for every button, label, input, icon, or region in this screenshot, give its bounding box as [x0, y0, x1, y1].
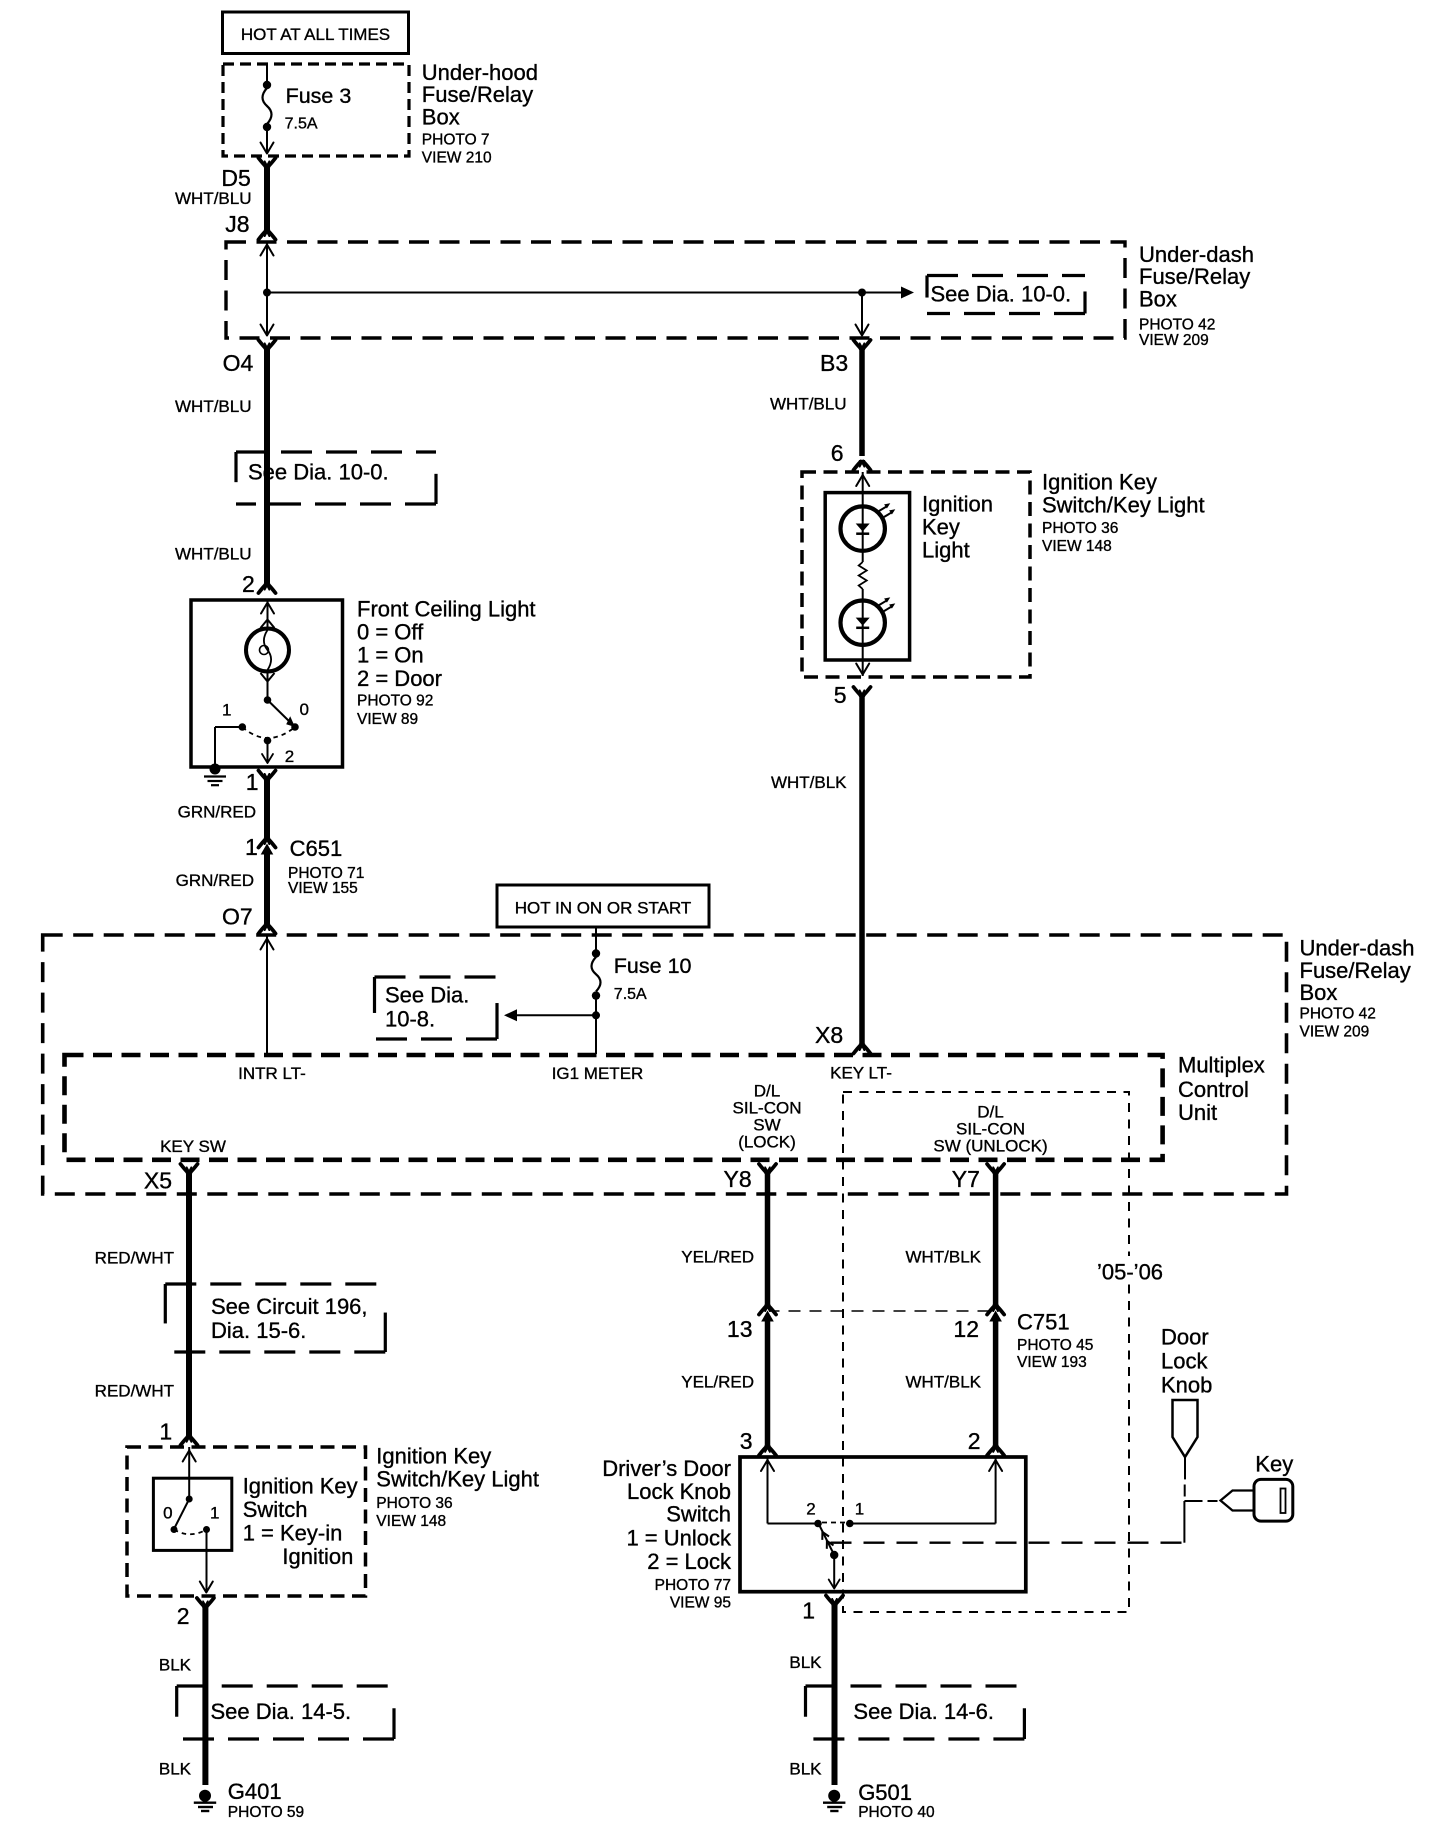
wire BLK pin2 to G401	[159, 1605, 206, 1786]
svg-text:Door: Door	[1161, 1324, 1209, 1349]
svg-text:See Circuit 196,: See Circuit 196,	[211, 1294, 368, 1319]
svg-text:13: 13	[727, 1316, 753, 1342]
svg-text:Lock: Lock	[1161, 1348, 1208, 1373]
junction node at B3 branch	[858, 289, 866, 297]
svg-text:Control: Control	[1178, 1077, 1249, 1102]
fuse F3 (Fuse 3, 7.5A)	[261, 64, 352, 154]
ground G501	[823, 1780, 935, 1821]
svg-text:Fuse/Relay: Fuse/Relay	[1300, 958, 1411, 983]
svg-text:VIEW 148: VIEW 148	[376, 1513, 446, 1530]
svg-text:YEL/RED: YEL/RED	[681, 1373, 754, 1392]
wire RED/WHT X5 down	[95, 1171, 189, 1439]
connector C751 pin 12	[953, 1305, 1004, 1343]
svg-text:D5: D5	[221, 165, 250, 191]
svg-text:1: 1	[159, 1419, 172, 1445]
wire WHT/BLK Y7 to C751-12	[905, 1171, 995, 1309]
'05-'06 model region (thin dashed)	[843, 1092, 1168, 1612]
svg-text:1: 1	[246, 769, 259, 795]
svg-text:WHT/BLK: WHT/BLK	[771, 773, 847, 792]
svg-text:G401: G401	[228, 1779, 282, 1804]
wire WHT/BLK pin5 to X8	[771, 694, 862, 1047]
svg-text:Key: Key	[922, 514, 960, 539]
wire branch down to B3	[856, 293, 869, 337]
ignition key switch (inner box)	[153, 1473, 357, 1569]
connector X8	[815, 1022, 871, 1054]
reference box See Dia. 10-0. (in under-dash box)	[927, 276, 1085, 314]
power label HOT IN ON OR START	[497, 885, 709, 927]
svg-text:WHT/BLU: WHT/BLU	[175, 397, 252, 416]
svg-text:B3: B3	[820, 350, 848, 376]
svg-text:0: 0	[300, 700, 309, 719]
wire WHT/BLU B3 to key light	[770, 347, 862, 457]
svg-text:WHT/BLK: WHT/BLK	[905, 1248, 981, 1267]
svg-text:Ignition: Ignition	[282, 1544, 353, 1569]
svg-text:VIEW 209: VIEW 209	[1139, 332, 1209, 349]
svg-text:Multiplex: Multiplex	[1178, 1052, 1265, 1077]
svg-text:J8: J8	[225, 211, 249, 237]
svg-text:See Dia. 10-0.: See Dia. 10-0.	[931, 282, 1072, 307]
svg-text:G501: G501	[858, 1780, 912, 1805]
svg-text:2 = Door: 2 = Door	[357, 666, 442, 691]
multiplex control unit box (dashed)	[65, 1052, 1265, 1159]
switch arm of door lock knob switch	[820, 1526, 840, 1589]
svg-text:1: 1	[245, 834, 258, 860]
reference box See Dia. 10-8.	[375, 977, 498, 1039]
svg-text:7.5A: 7.5A	[614, 986, 647, 1003]
resistor (between LEDs)	[859, 562, 867, 589]
svg-text:PHOTO 45: PHOTO 45	[1017, 1337, 1093, 1354]
reference box See Dia. 14-5.	[177, 1686, 394, 1739]
svg-text:HOT AT ALL TIMES: HOT AT ALL TIMES	[241, 25, 390, 44]
svg-text:VIEW 193: VIEW 193	[1017, 1354, 1087, 1371]
LED 1	[841, 472, 896, 562]
svg-text:VIEW 89: VIEW 89	[357, 711, 418, 728]
svg-text:YEL/RED: YEL/RED	[681, 1248, 754, 1267]
switch contacts of door lock knob switch	[761, 1457, 1002, 1527]
svg-text:C751: C751	[1017, 1310, 1070, 1335]
svg-text:WHT/BLU: WHT/BLU	[175, 545, 252, 564]
svg-text:Key: Key	[1255, 1452, 1293, 1477]
svg-text:Fuse 3: Fuse 3	[286, 84, 352, 108]
wire branch to See Dia. 10-0.	[267, 287, 914, 299]
ignition key switch/key light box (dashed)	[802, 469, 1205, 677]
svg-text:Ignition Key: Ignition Key	[1042, 469, 1157, 494]
svg-text:BLK: BLK	[159, 1656, 192, 1675]
ground (internal, ceiling light)	[204, 764, 226, 786]
connector C651	[245, 834, 364, 897]
connector pin 2 of front ceiling light	[242, 571, 276, 597]
wire WHT/BLU D5 to J8	[175, 165, 267, 234]
svg-text:3: 3	[740, 1428, 753, 1454]
svg-text:’05-’06: ’05-’06	[1097, 1259, 1163, 1284]
switch of front ceiling light (0/1/2)	[222, 672, 309, 767]
wire WHT/BLU O4 down	[175, 347, 267, 587]
svg-text:1 = Key-in: 1 = Key-in	[243, 1520, 343, 1545]
connector Y7	[952, 1164, 1004, 1192]
LED 2	[841, 589, 896, 676]
svg-text:WHT/BLK: WHT/BLK	[905, 1373, 981, 1392]
svg-text:RED/WHT: RED/WHT	[95, 1382, 174, 1401]
svg-text:INTR LT-: INTR LT-	[238, 1064, 306, 1083]
svg-text:See Dia. 10-0.: See Dia. 10-0.	[248, 460, 389, 485]
svg-text:Switch/Key Light: Switch/Key Light	[1042, 493, 1205, 518]
wire BLK pin1 to G501	[789, 1602, 834, 1785]
svg-text:BLK: BLK	[789, 1653, 822, 1672]
svg-text:Light: Light	[922, 537, 970, 562]
ignition key light (inner box, LEDs)	[825, 491, 993, 660]
svg-text:5: 5	[834, 682, 847, 708]
connector X5	[144, 1164, 198, 1194]
reference box See Dia. 14-6.	[806, 1686, 1025, 1739]
svg-text:12: 12	[953, 1316, 979, 1342]
svg-text:Switch: Switch	[666, 1502, 731, 1527]
svg-text:2: 2	[968, 1428, 981, 1454]
svg-text:Ignition Key: Ignition Key	[376, 1443, 491, 1468]
svg-text:Switch/Key Light: Switch/Key Light	[376, 1467, 539, 1492]
under-hood fuse/relay box (dashed)	[223, 60, 538, 167]
svg-text:Under-dash: Under-dash	[1300, 936, 1415, 961]
svg-text:VIEW 148: VIEW 148	[1042, 538, 1112, 555]
svg-text:(LOCK): (LOCK)	[738, 1133, 796, 1152]
wire YEL/RED C751 to pin 3	[681, 1320, 767, 1449]
lamp (bulb) of front ceiling light	[246, 600, 289, 682]
svg-text:WHT/BLU: WHT/BLU	[770, 395, 847, 414]
svg-text:0 = Off: 0 = Off	[357, 620, 424, 645]
svg-text:Fuse 10: Fuse 10	[614, 954, 692, 978]
junction node at left bus	[263, 289, 271, 297]
svg-text:SW (UNLOCK): SW (UNLOCK)	[933, 1137, 1047, 1156]
svg-text:PHOTO 42: PHOTO 42	[1139, 317, 1215, 334]
wire color label WHT/BLU above ceiling light	[175, 545, 252, 564]
svg-text:1: 1	[855, 1500, 864, 1519]
wire YEL/RED Y8 to C751-13	[681, 1171, 767, 1309]
svg-text:Box: Box	[1139, 286, 1177, 311]
door lock knob	[1161, 1324, 1212, 1496]
svg-text:See Dia. 14-5.: See Dia. 14-5.	[211, 1699, 352, 1724]
svg-text:Lock Knob: Lock Knob	[627, 1479, 731, 1504]
svg-text:1 = On: 1 = On	[357, 643, 424, 668]
connector O7	[222, 903, 276, 933]
svg-text:O7: O7	[222, 903, 253, 929]
svg-text:2: 2	[177, 1603, 190, 1629]
svg-text:RED/WHT: RED/WHT	[95, 1249, 174, 1268]
svg-text:PHOTO 77: PHOTO 77	[655, 1577, 731, 1594]
svg-text:Knob: Knob	[1161, 1373, 1212, 1398]
wire WHT/BLK C751 to pin 2	[905, 1320, 995, 1449]
svg-text:X8: X8	[815, 1022, 843, 1048]
svg-text:HOT IN ON OR START: HOT IN ON OR START	[515, 899, 692, 918]
reference box See Dia. 10-0. (on O4 wire)	[236, 452, 436, 504]
svg-text:6: 6	[831, 440, 844, 466]
connector pin 3 of door lock knob switch	[740, 1428, 776, 1455]
svg-text:0: 0	[163, 1503, 172, 1522]
connector Y8	[724, 1164, 777, 1192]
wire GRN/RED pin1 to C651	[178, 777, 267, 839]
svg-text:1: 1	[802, 1598, 815, 1624]
svg-text:See Dia. 14-6.: See Dia. 14-6.	[853, 1699, 994, 1724]
svg-text:VIEW 210: VIEW 210	[422, 150, 492, 167]
svg-text:PHOTO 42: PHOTO 42	[1300, 1005, 1376, 1022]
svg-text:KEY LT-: KEY LT-	[830, 1064, 892, 1083]
svg-text:IG1 METER: IG1 METER	[552, 1064, 644, 1083]
svg-text:Switch: Switch	[243, 1497, 308, 1522]
switch contacts of ignition key switch	[163, 1447, 219, 1593]
svg-text:PHOTO 36: PHOTO 36	[376, 1495, 452, 1512]
pin name D/L SIL-CON SW (LOCK)	[733, 1082, 802, 1152]
svg-text:PHOTO 36: PHOTO 36	[1042, 520, 1118, 537]
svg-text:PHOTO 7: PHOTO 7	[422, 132, 490, 149]
svg-text:Ignition Key: Ignition Key	[243, 1473, 358, 1498]
wire (internal bus) J8 to O4	[261, 243, 274, 336]
svg-text:X5: X5	[144, 1168, 172, 1194]
svg-text:KEY SW: KEY SW	[160, 1137, 226, 1156]
connector J8	[225, 211, 275, 240]
svg-text:2: 2	[806, 1500, 815, 1519]
connector C751 labels	[1017, 1310, 1093, 1372]
connector C751 tie line	[768, 1310, 996, 1312]
connector pin 1 of door lock knob switch	[802, 1596, 843, 1624]
connector pin 6 of ignition key light	[831, 440, 871, 470]
under-dash fuse/relay box (bottom, dashed)	[43, 935, 1415, 1194]
svg-text:C651: C651	[290, 836, 343, 861]
connector pin 2 of door lock knob switch	[968, 1428, 1004, 1455]
svg-text:1 = Unlock: 1 = Unlock	[626, 1526, 732, 1551]
connector pin 1 of ignition key switch	[159, 1419, 197, 1446]
svg-text:Unit: Unit	[1178, 1100, 1217, 1125]
connector C751 pin 13	[727, 1305, 776, 1343]
svg-text:VIEW 95: VIEW 95	[670, 1595, 731, 1612]
front ceiling light box	[191, 596, 536, 767]
connector pin 5 of ignition key light	[834, 682, 871, 708]
under-dash fuse/relay box (top, dashed)	[226, 242, 1254, 349]
svg-text:Driver’s Door: Driver’s Door	[602, 1456, 731, 1481]
svg-text:VIEW 155: VIEW 155	[288, 880, 358, 897]
svg-text:Box: Box	[1300, 980, 1338, 1005]
svg-text:2: 2	[285, 747, 294, 766]
svg-text:1: 1	[222, 701, 231, 720]
junction node on IG1 wire	[592, 1011, 600, 1019]
svg-text:Front Ceiling Light: Front Ceiling Light	[357, 596, 536, 621]
wire to internal ground of ceiling light	[215, 727, 242, 766]
wire INTR LT- (O7 to multiplex)	[261, 936, 274, 1054]
fuse F10 (Fuse 10, 7.5A)	[592, 927, 692, 1054]
svg-text:See Dia.: See Dia.	[385, 983, 469, 1008]
svg-text:Dia. 15-6.: Dia. 15-6.	[211, 1318, 306, 1343]
connector pin 2 of ignition key switch	[177, 1598, 214, 1629]
svg-text:2: 2	[242, 571, 255, 597]
mechanical link knob/key to switch	[831, 1501, 1218, 1543]
svg-text:BLK: BLK	[789, 1760, 822, 1779]
svg-text:GRN/RED: GRN/RED	[176, 871, 254, 890]
ground G401	[194, 1779, 304, 1821]
power label HOT AT ALL TIMES	[223, 12, 409, 54]
pin name D/L SIL-CON SW (UNLOCK)	[933, 1103, 1047, 1156]
connector D5	[221, 158, 275, 191]
svg-text:2 = Lock: 2 = Lock	[647, 1549, 732, 1574]
svg-text:10-8.: 10-8.	[385, 1007, 435, 1032]
svg-text:GRN/RED: GRN/RED	[178, 803, 256, 822]
connector O4	[223, 340, 276, 376]
connector pin 1 of ceiling light	[246, 769, 276, 795]
svg-text:Box: Box	[422, 104, 460, 129]
svg-text:7.5A: 7.5A	[285, 115, 318, 132]
svg-text:Y7: Y7	[952, 1166, 980, 1192]
svg-text:Ignition: Ignition	[922, 491, 993, 516]
svg-text:PHOTO 92: PHOTO 92	[357, 693, 433, 710]
svg-text:O4: O4	[223, 350, 254, 376]
svg-text:Y8: Y8	[724, 1166, 752, 1192]
ignition key switch box (dashed)	[127, 1443, 539, 1596]
connector B3	[820, 340, 871, 376]
reference box See Circuit 196, Dia. 15-6.	[165, 1284, 385, 1352]
wire branch to See Dia. 10-8.	[504, 1009, 596, 1021]
wire GRN/RED C651 to O7	[176, 853, 267, 927]
svg-text:VIEW 209: VIEW 209	[1300, 1024, 1370, 1041]
key	[1221, 1452, 1294, 1522]
svg-text:WHT/BLU: WHT/BLU	[175, 189, 252, 208]
svg-text:PHOTO 59: PHOTO 59	[228, 1804, 304, 1821]
svg-text:PHOTO 40: PHOTO 40	[858, 1804, 935, 1821]
driver's door lock knob switch box	[602, 1456, 1026, 1612]
svg-text:BLK: BLK	[159, 1760, 192, 1779]
svg-text:1: 1	[210, 1503, 219, 1522]
